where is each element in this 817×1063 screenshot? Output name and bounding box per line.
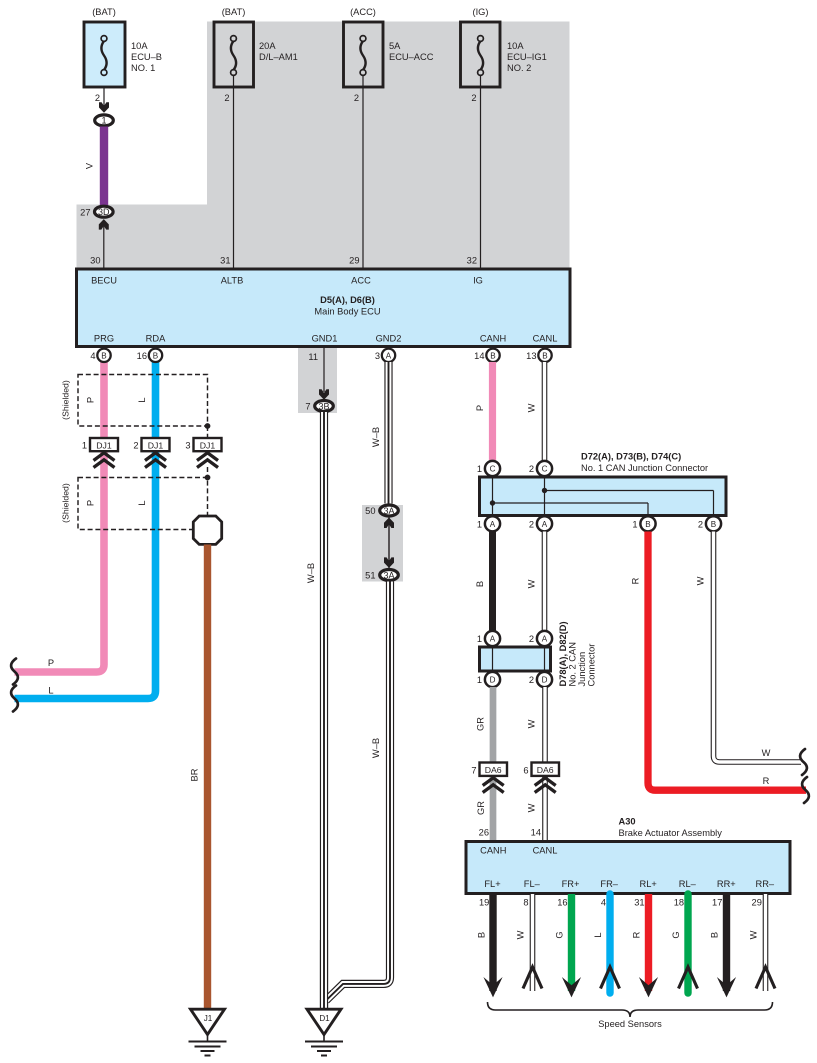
- svg-text:ECU–B: ECU–B: [131, 52, 162, 62]
- svg-text:RR–: RR–: [755, 879, 774, 889]
- wire FR- L blue: [606, 894, 613, 993]
- svg-text:NO. 2: NO. 2: [507, 63, 531, 73]
- wire BR brown: [204, 545, 211, 1010]
- fuse F2 20A D/L-AM1: [214, 7, 298, 103]
- svg-text:D: D: [542, 676, 548, 685]
- svg-text:A: A: [490, 635, 496, 644]
- svg-text:29: 29: [349, 256, 359, 266]
- svg-text:G: G: [671, 931, 681, 938]
- svg-text:29: 29: [752, 898, 762, 908]
- svg-text:BR: BR: [190, 768, 200, 781]
- pin 1 D circle (J2 bottom): [485, 672, 500, 687]
- svg-text:DJ1: DJ1: [200, 441, 216, 451]
- brake actuator assembly box A30: [466, 842, 790, 894]
- gray background region: [77, 22, 570, 271]
- svg-text:D/L–AM1: D/L–AM1: [259, 52, 298, 62]
- svg-text:13: 13: [526, 351, 536, 361]
- svg-text:RDA: RDA: [146, 334, 166, 344]
- pin 2 A circle (J2 top): [537, 631, 552, 646]
- svg-text:D: D: [490, 676, 496, 685]
- svg-text:(ACC): (ACC): [350, 7, 376, 17]
- wire FR+ G green: [568, 894, 575, 991]
- svg-text:1: 1: [477, 634, 482, 644]
- svg-text:GR: GR: [476, 717, 486, 731]
- connector DA6 pin6: [523, 763, 559, 793]
- wire FL- W: [530, 894, 536, 991]
- svg-text:DA6: DA6: [485, 765, 502, 775]
- svg-text:2: 2: [133, 441, 138, 451]
- svg-text:B: B: [153, 351, 158, 360]
- svg-text:31: 31: [220, 256, 230, 266]
- svg-text:14: 14: [474, 351, 484, 361]
- connector DJ1 pin1: [82, 438, 118, 468]
- svg-text:L: L: [593, 932, 603, 937]
- speed sensors brace: [488, 1002, 773, 1017]
- svg-text:D72(A), D73(B), D74(C): D72(A), D73(B), D74(C): [581, 452, 681, 462]
- svg-text:G: G: [555, 931, 565, 938]
- break squiggle L wire: [11, 686, 18, 712]
- redraw left W-B over merge: [320, 940, 328, 1008]
- svg-text:FL+: FL+: [484, 879, 500, 889]
- svg-text:11: 11: [308, 352, 318, 362]
- svg-text:17: 17: [712, 898, 722, 908]
- svg-text:A: A: [542, 520, 548, 529]
- svg-text:(IG): (IG): [472, 7, 488, 17]
- ground J1: [189, 1009, 227, 1055]
- svg-text:B: B: [645, 520, 650, 529]
- svg-text:1: 1: [477, 519, 482, 529]
- svg-text:2: 2: [471, 93, 476, 103]
- svg-text:2: 2: [224, 93, 229, 103]
- svg-text:A30: A30: [619, 817, 636, 827]
- svg-text:BECU: BECU: [91, 276, 117, 286]
- connector DJ1 pin2: [133, 438, 169, 468]
- pin 1 A circle (J2 top): [485, 631, 500, 646]
- gray strip 3A pass-through: [362, 505, 403, 582]
- ECU pin 3 circle A (GND2): [382, 349, 395, 362]
- svg-text:1: 1: [477, 675, 482, 685]
- wire CANL W to 2C: [542, 362, 548, 460]
- svg-text:ECU–ACC: ECU–ACC: [389, 52, 434, 62]
- wire RDA blue L: [15, 360, 156, 699]
- svg-text:3B: 3B: [318, 401, 329, 411]
- svg-text:PRG: PRG: [94, 334, 114, 344]
- gray strip GND1: [298, 348, 337, 413]
- No.2 CAN junction connector box: [480, 638, 551, 679]
- svg-text:C: C: [542, 465, 548, 474]
- svg-text:ECU–IG1: ECU–IG1: [507, 52, 547, 62]
- wire GR gray: [490, 687, 497, 840]
- pin 2 C circle: [537, 461, 552, 476]
- node 1 ellipse: [95, 115, 114, 126]
- svg-text:2: 2: [354, 93, 359, 103]
- svg-text:L: L: [137, 500, 147, 505]
- fuse F4 10A ECU-IG1 NO.2: [461, 7, 547, 103]
- svg-text:1: 1: [632, 519, 637, 529]
- svg-text:Main Body ECU: Main Body ECU: [314, 307, 380, 317]
- ECU pin 16 circle B: [149, 349, 162, 362]
- svg-text:W: W: [749, 930, 759, 939]
- fuse F1 10A ECU-B NO.1: [84, 7, 162, 103]
- wire W CAN mid: [542, 532, 548, 632]
- svg-text:1: 1: [477, 464, 482, 474]
- node 3A lower ellipse: [380, 570, 399, 581]
- svg-text:20A: 20A: [259, 41, 276, 51]
- svg-text:3A: 3A: [383, 570, 394, 580]
- svg-text:B: B: [475, 581, 485, 587]
- svg-text:GND1: GND1: [312, 334, 338, 344]
- svg-text:P: P: [86, 397, 96, 403]
- svg-text:A: A: [490, 520, 496, 529]
- svg-text:2: 2: [529, 519, 534, 529]
- svg-text:14: 14: [531, 828, 541, 838]
- svg-text:3: 3: [375, 351, 380, 361]
- wire fuse4 to ECU pin 32: [480, 76, 482, 269]
- main body ECU box D5(A),D6(B): [77, 269, 571, 347]
- svg-text:R: R: [632, 931, 642, 938]
- svg-text:50: 50: [365, 506, 375, 516]
- svg-text:1: 1: [82, 441, 87, 451]
- svg-text:W: W: [696, 576, 706, 585]
- wire R red CAN: [648, 532, 806, 791]
- arrow into node 1: [99, 102, 109, 113]
- svg-text:W: W: [762, 748, 771, 758]
- svg-text:16: 16: [137, 351, 147, 361]
- wire RR- W: [763, 894, 769, 991]
- ECU pin 14 circle B (CANH): [486, 349, 499, 362]
- svg-text:W: W: [527, 579, 537, 588]
- wire RR+ B black: [723, 894, 730, 991]
- svg-text:CANL: CANL: [533, 334, 558, 344]
- wire V (violet): [100, 127, 108, 206]
- svg-text:CANH: CANH: [480, 846, 506, 856]
- break squiggle W right: [800, 749, 807, 775]
- svg-text:5A: 5A: [389, 41, 401, 51]
- wire W-B GND2 to 3A: [384, 362, 392, 504]
- svg-text:W: W: [516, 930, 526, 939]
- svg-text:D78(A), D82(D): D78(A), D82(D): [558, 621, 568, 686]
- svg-text:3D: 3D: [98, 207, 110, 217]
- wire PRG pink P: [15, 360, 105, 672]
- svg-text:31: 31: [634, 898, 644, 908]
- svg-text:(BAT): (BAT): [92, 7, 116, 17]
- svg-text:B: B: [711, 520, 716, 529]
- node 3B ellipse: [315, 401, 334, 412]
- svg-text:FR–: FR–: [600, 879, 618, 889]
- arrow up into 3D: [99, 219, 109, 230]
- junction dot on shield box1 corner: [205, 423, 211, 429]
- svg-text:CANL: CANL: [533, 846, 558, 856]
- svg-text:3: 3: [185, 441, 190, 451]
- svg-text:W–B: W–B: [306, 563, 316, 583]
- svg-text:GND2: GND2: [376, 334, 402, 344]
- wire W-B right (3A to ground D1): [326, 582, 390, 1001]
- shield octagon: [193, 516, 221, 544]
- svg-text:16: 16: [557, 898, 567, 908]
- svg-text:W: W: [527, 803, 537, 812]
- svg-text:19: 19: [479, 898, 489, 908]
- shielded dashed box 1: [78, 375, 208, 427]
- svg-text:2: 2: [529, 464, 534, 474]
- svg-text:4: 4: [601, 898, 606, 908]
- svg-text:L: L: [137, 397, 147, 402]
- pin 2 A circle: [537, 516, 552, 531]
- svg-text:IG: IG: [473, 276, 483, 286]
- svg-text:No. 2 CAN: No. 2 CAN: [568, 642, 578, 686]
- svg-text:A: A: [542, 635, 548, 644]
- shielded dashed box 2: [78, 426, 208, 530]
- svg-text:D5(A), D6(B): D5(A), D6(B): [320, 295, 375, 305]
- pin 2 B circle: [706, 516, 721, 531]
- svg-text:B: B: [101, 351, 106, 360]
- svg-text:FR+: FR+: [562, 879, 580, 889]
- wire W CAN right: [714, 532, 802, 763]
- No.1 CAN junction connector box: [480, 466, 727, 524]
- pin 1 B circle: [640, 516, 655, 531]
- break squiggle P wire: [11, 659, 18, 685]
- svg-text:L: L: [48, 686, 53, 696]
- wire W-B left (GND1 to ground D1): [320, 412, 328, 1008]
- svg-text:NO. 1: NO. 1: [131, 63, 155, 73]
- svg-text:W: W: [527, 403, 537, 412]
- wire CANH pink to 1C: [489, 362, 496, 460]
- ECU pin 4 circle B: [97, 349, 110, 362]
- svg-text:DJ1: DJ1: [148, 441, 164, 451]
- svg-text:1: 1: [101, 116, 106, 126]
- connector DJ1 pin3: [185, 438, 221, 468]
- svg-text:RL–: RL–: [679, 879, 697, 889]
- svg-text:A: A: [386, 351, 392, 360]
- ground D1: [305, 1009, 343, 1055]
- break squiggle R right: [802, 777, 809, 803]
- svg-text:6: 6: [523, 766, 528, 776]
- node 3A upper ellipse: [380, 505, 399, 516]
- wire W to DA6: [542, 687, 548, 840]
- pin 2 D circle (J2 bottom): [537, 672, 552, 687]
- svg-text:FL–: FL–: [524, 879, 541, 889]
- svg-text:30: 30: [90, 256, 100, 266]
- fuse F3 5A ECU-ACC: [344, 7, 434, 103]
- svg-text:Connector: Connector: [587, 644, 597, 687]
- svg-text:GR: GR: [476, 801, 486, 815]
- svg-text:7: 7: [471, 766, 476, 776]
- svg-text:(BAT): (BAT): [222, 7, 246, 17]
- svg-text:D1: D1: [319, 1014, 330, 1023]
- svg-text:(Shielded): (Shielded): [61, 380, 71, 420]
- svg-text:26: 26: [479, 828, 489, 838]
- svg-text:C: C: [490, 465, 496, 474]
- wire fuse3 to ECU pin 29: [362, 76, 364, 269]
- wire 3D to ECU pin 30: [103, 226, 105, 269]
- connector DA6 pin7: [471, 763, 507, 793]
- wire B black CAN: [489, 532, 496, 632]
- svg-text:18: 18: [674, 898, 684, 908]
- svg-text:B: B: [542, 351, 547, 360]
- GND1 pin 11 wire+arrow: [323, 348, 325, 392]
- wire RL- G green: [684, 894, 691, 993]
- svg-text:RR+: RR+: [717, 879, 736, 889]
- svg-text:27: 27: [80, 208, 90, 218]
- svg-text:7: 7: [305, 402, 310, 412]
- node 3D ellipse: [95, 206, 114, 217]
- svg-text:W–B: W–B: [371, 738, 381, 758]
- svg-text:3A: 3A: [383, 506, 394, 516]
- svg-text:RL+: RL+: [640, 879, 657, 889]
- svg-text:ALTB: ALTB: [221, 276, 244, 286]
- svg-text:2: 2: [698, 519, 703, 529]
- svg-text:32: 32: [467, 256, 477, 266]
- svg-text:P: P: [475, 405, 485, 411]
- svg-text:B: B: [477, 932, 487, 938]
- svg-text:2: 2: [95, 93, 100, 103]
- svg-text:2: 2: [529, 675, 534, 685]
- svg-text:V: V: [85, 162, 95, 169]
- wire RL+ R red: [645, 894, 652, 991]
- svg-text:R: R: [631, 577, 641, 584]
- svg-text:R: R: [763, 776, 770, 786]
- svg-text:No. 1 CAN Junction Connector: No. 1 CAN Junction Connector: [581, 463, 708, 473]
- svg-text:J1: J1: [204, 1014, 213, 1023]
- wire fuse2 to ECU pin 31: [233, 76, 235, 269]
- svg-text:W: W: [527, 719, 537, 728]
- wire FL+ B black: [489, 894, 496, 991]
- junction dot on shield box2 corner: [205, 475, 211, 481]
- svg-text:51: 51: [365, 571, 375, 581]
- pin 1 A circle: [485, 516, 500, 531]
- pin 1 C circle: [485, 461, 500, 476]
- svg-text:W–B: W–B: [371, 427, 381, 447]
- svg-text:2: 2: [529, 634, 534, 644]
- svg-text:CANH: CANH: [480, 334, 506, 344]
- svg-text:P: P: [86, 500, 96, 506]
- wire fuse1 to ellipse 1: [103, 76, 105, 106]
- svg-text:Brake Actuator Assembly: Brake Actuator Assembly: [619, 828, 723, 838]
- svg-text:B: B: [710, 932, 720, 938]
- svg-text:B: B: [490, 351, 495, 360]
- svg-text:Junction: Junction: [577, 652, 587, 687]
- svg-text:P: P: [48, 658, 54, 668]
- svg-text:10A: 10A: [507, 41, 524, 51]
- svg-text:DJ1: DJ1: [96, 441, 112, 451]
- ECU pin 13 circle B (CANL): [538, 349, 551, 362]
- svg-text:10A: 10A: [131, 41, 148, 51]
- svg-text:4: 4: [90, 351, 95, 361]
- 3A pass-through line with arrows: [388, 517, 390, 568]
- svg-text:DA6: DA6: [537, 765, 554, 775]
- svg-text:(Shielded): (Shielded): [61, 483, 71, 523]
- svg-text:ACC: ACC: [351, 276, 371, 286]
- svg-text:8: 8: [523, 898, 528, 908]
- svg-text:Speed Sensors: Speed Sensors: [598, 1019, 662, 1029]
